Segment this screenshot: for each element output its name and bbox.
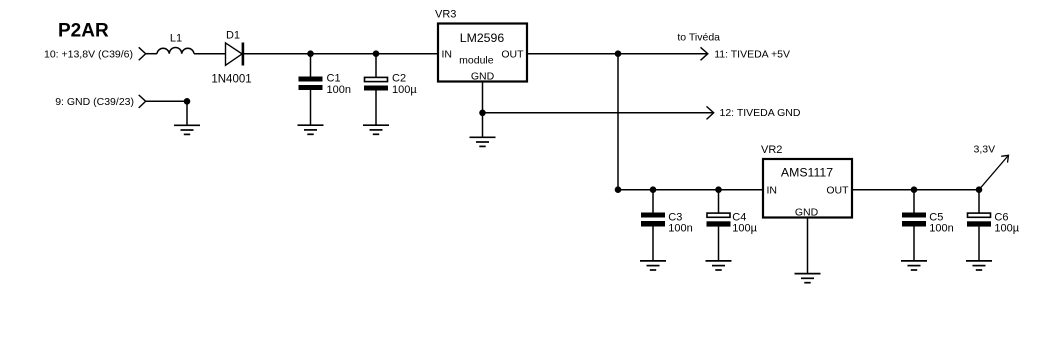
- svg-text:AMS1117: AMS1117: [781, 165, 833, 179]
- capacitor C6 lead bottom: [978, 227, 980, 261]
- capacitor C4 minus plate: [707, 221, 731, 226]
- junction node GND (VR3): [479, 110, 486, 117]
- svg-text:IN: IN: [767, 185, 778, 197]
- inductor L1: [157, 48, 194, 54]
- diode D1 triangle: [226, 43, 243, 65]
- svg-text:GND: GND: [471, 70, 495, 82]
- wire L1 to D1: [194, 53, 226, 55]
- ground for C5: [901, 261, 927, 270]
- wire GND junction to arrow 12: [483, 112, 714, 114]
- ground for C1: [298, 125, 324, 134]
- capacitor C4 lead top: [718, 190, 720, 213]
- svg-text:VR2: VR2: [761, 144, 782, 156]
- svg-text:100n: 100n: [327, 84, 351, 96]
- connector pin 9 chevron: [139, 95, 146, 108]
- capacitor C5 lead top: [913, 190, 915, 213]
- ground for VR3: [470, 137, 496, 146]
- wire VR2 GND down: [807, 218, 809, 274]
- svg-text:OUT: OUT: [501, 49, 524, 61]
- capacitor C1 plates: [299, 77, 323, 82]
- svg-text:module: module: [459, 55, 494, 67]
- svg-text:C2: C2: [392, 72, 406, 84]
- wire pin 9 to ground junction: [146, 100, 187, 102]
- svg-text:P2AR: P2AR: [58, 21, 109, 42]
- capacitor C2 lead top: [375, 54, 377, 77]
- junction node C6: [976, 186, 983, 193]
- regulator VR2 box: [763, 159, 852, 218]
- ground for pin 9: [174, 125, 200, 134]
- junction node C3: [650, 186, 657, 193]
- wire VR2 OUT to 3,3V: [852, 189, 979, 191]
- svg-text:100µ: 100µ: [994, 222, 1019, 234]
- wire +5V junction down to VR2 rail: [617, 54, 619, 190]
- connector pin 10 chevron: [139, 47, 146, 60]
- wire D1 to VR3 IN: [244, 53, 438, 55]
- wire 3,3V riser (diagonal): [979, 156, 1008, 190]
- capacitor C1 lead top: [310, 54, 312, 77]
- svg-text:1N4001: 1N4001: [211, 73, 251, 85]
- junction node C5: [911, 186, 918, 193]
- svg-text:LM2596: LM2596: [460, 31, 505, 45]
- svg-text:100µ: 100µ: [732, 222, 757, 234]
- svg-text:D1: D1: [226, 30, 240, 42]
- capacitor C2 lead bottom: [375, 91, 377, 126]
- capacitor C5 plates: [902, 213, 926, 218]
- svg-text:OUT: OUT: [826, 185, 849, 197]
- wire VR3 OUT to arrow 11: [528, 53, 708, 55]
- capacitor C3 lead top: [652, 190, 654, 213]
- svg-text:100n: 100n: [668, 222, 692, 234]
- wire down to ground (pin 9): [186, 101, 188, 125]
- svg-text:to Tivéda: to Tivéda: [677, 31, 720, 43]
- wire VR3 GND down: [482, 81, 484, 137]
- capacitor C5 lead bottom: [913, 227, 915, 261]
- svg-text:VR3: VR3: [435, 8, 456, 20]
- svg-text:100µ: 100µ: [392, 84, 417, 96]
- junction node C1: [307, 50, 314, 57]
- capacitor C6 plus plate (hollow): [968, 213, 991, 217]
- capacitor C6 lead top: [978, 190, 980, 213]
- svg-text:12: TIVEDA GND: 12: TIVEDA GND: [720, 107, 801, 119]
- svg-text:11: TIVEDA +5V: 11: TIVEDA +5V: [714, 48, 790, 60]
- capacitor C4 lead bottom: [718, 227, 720, 261]
- svg-text:9: GND (C39/23): 9: GND (C39/23): [55, 96, 134, 108]
- junction node +5V: [615, 50, 622, 57]
- svg-text:100n: 100n: [929, 222, 953, 234]
- junction node C4: [715, 186, 722, 193]
- regulator VR3 box: [438, 24, 527, 82]
- wire pin10 to L1: [146, 53, 157, 55]
- ground for C6: [966, 261, 992, 270]
- capacitor C6 minus plate: [967, 221, 991, 226]
- capacitor C4 plus plate (hollow): [707, 213, 730, 217]
- capacitor C3 lead bottom: [652, 227, 654, 261]
- capacitor C2 minus plate: [364, 86, 388, 91]
- ground for C3: [640, 261, 666, 270]
- svg-text:C1: C1: [327, 72, 341, 84]
- capacitor C3 plates: [641, 213, 665, 218]
- ground for VR2: [795, 274, 821, 283]
- svg-text:3,3V: 3,3V: [974, 144, 996, 156]
- svg-text:IN: IN: [442, 49, 453, 61]
- junction corner node: [615, 186, 622, 193]
- junction node pin 9 ground: [184, 98, 191, 105]
- ground for C2: [363, 125, 389, 134]
- svg-text:GND: GND: [795, 207, 819, 219]
- arrow head node 11: [701, 47, 708, 60]
- wire to VR2 IN: [618, 189, 763, 191]
- capacitor C2 plus plate (hollow): [365, 77, 388, 81]
- diode D1 cathode bar: [242, 43, 245, 66]
- junction node C2: [373, 50, 380, 57]
- capacitor C1 lead bottom: [310, 90, 312, 125]
- arrow head node 12: [707, 106, 714, 119]
- arrow head 3,3V: [1001, 155, 1008, 162]
- ground for C4: [706, 261, 732, 270]
- svg-text:L1: L1: [170, 32, 182, 44]
- svg-text:10: +13,8V (C39/6): 10: +13,8V (C39/6): [44, 49, 133, 61]
